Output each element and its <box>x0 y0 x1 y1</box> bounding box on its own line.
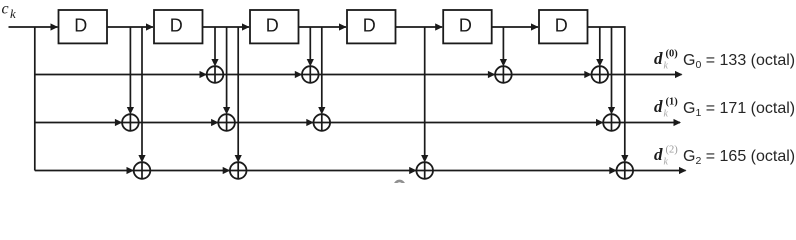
adder (XOR) G1-2 <box>218 114 235 131</box>
wire: D5 to D6 <box>492 26 538 28</box>
svg-text:d: d <box>654 97 663 116</box>
adder (XOR) G0-4 <box>592 66 609 83</box>
wire: input line into D1 <box>9 26 58 28</box>
svg-text:d: d <box>654 145 663 164</box>
svg-text:D: D <box>363 16 376 36</box>
wire: tap D6 output to G0 adder <box>599 27 601 60</box>
wire: tap D1 output to G1 adder <box>129 27 131 108</box>
svg-text:D: D <box>459 16 472 36</box>
delay flip-flop D3 <box>250 10 299 43</box>
svg-text:d: d <box>654 49 663 68</box>
svg-text:D: D <box>555 16 568 36</box>
svg-text:c: c <box>2 1 9 18</box>
svg-text:D: D <box>266 16 279 36</box>
partial gray circle cropped at bottom edge <box>395 181 404 190</box>
wire: D2 to D3 <box>203 26 250 28</box>
adder (XOR) G0-1 <box>207 66 224 83</box>
wire: tap D4 output to G2 adder <box>424 27 426 156</box>
svg-text:(2): (2) <box>666 145 679 156</box>
adder (XOR) G0-2 <box>302 66 319 83</box>
wire: tap D2 output to G2 adder <box>237 27 239 156</box>
svg-text:k: k <box>10 6 16 21</box>
svg-text:k: k <box>664 109 669 120</box>
svg-text:D: D <box>74 16 87 36</box>
svg-text:(0): (0) <box>666 49 679 60</box>
wire: D4 to D5 <box>396 26 443 28</box>
wire: tap D2 output to G0 adder <box>214 27 216 60</box>
svg-text:k: k <box>664 61 669 72</box>
delay flip-flop D5 <box>443 10 492 43</box>
wire: G1 output row <box>35 122 680 124</box>
wire: D1 to D2 <box>107 26 153 28</box>
wire: G0 output row <box>35 74 682 76</box>
adder (XOR) G2-4 <box>617 162 634 179</box>
svg-text:(1): (1) <box>666 97 679 108</box>
adder (XOR) G2-3 <box>416 162 433 179</box>
svg-text:G0 = 133 (octal): G0 = 133 (octal) <box>683 52 795 71</box>
delay flip-flop D2 <box>154 10 203 43</box>
adder (XOR) G1-1 <box>122 114 139 131</box>
adder (XOR) G1-3 <box>314 114 331 131</box>
adder (XOR) G0-3 <box>495 66 512 83</box>
adder (XOR) G2-2 <box>230 162 247 179</box>
adder (XOR) G2-1 <box>134 162 151 179</box>
delay flip-flop D4 <box>347 10 396 43</box>
svg-text:G2 = 165 (octal): G2 = 165 (octal) <box>683 148 795 167</box>
wire: input tap vertical (node c_k to adders) <box>34 27 36 171</box>
wire: D3 to D4 <box>299 26 347 28</box>
delay flip-flop D6 <box>539 10 588 43</box>
wire: tap D6 output to G1 adder <box>611 27 613 108</box>
delay flip-flop D1 <box>59 10 108 43</box>
wire: tap D1 output to G2 adder <box>141 27 143 156</box>
svg-text:D: D <box>170 16 183 36</box>
wire: D6 output to G2 adder (corner) <box>588 27 625 156</box>
wire: tap D2 output to G1 adder <box>226 27 228 108</box>
wire: tap D3 output to G0 adder <box>309 27 311 60</box>
svg-text:G1 = 171 (octal): G1 = 171 (octal) <box>683 100 795 119</box>
wire: tap D3 output to G1 adder <box>321 27 323 108</box>
adder (XOR) G1-4 <box>603 114 620 131</box>
svg-text:k: k <box>664 157 669 168</box>
wire: tap D5 output to G0 adder <box>502 27 504 60</box>
wire: G2 output row <box>35 170 686 172</box>
